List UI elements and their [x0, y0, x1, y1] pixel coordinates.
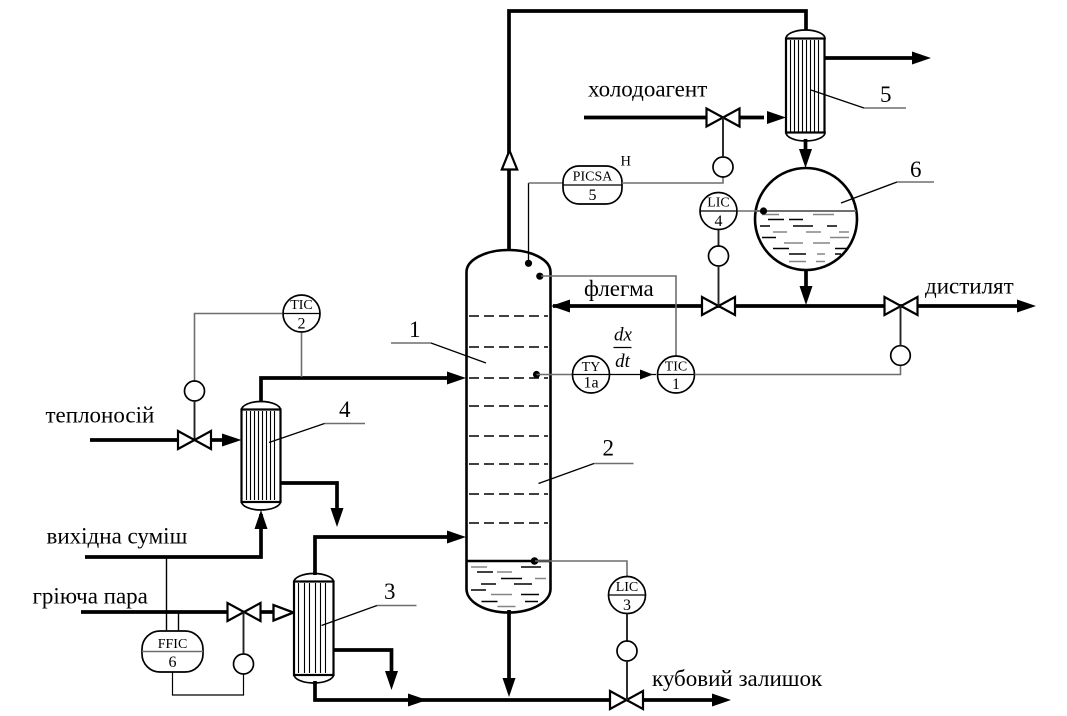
valve coolant control valve [707, 109, 724, 127]
svg-text:dx: dx [614, 325, 633, 346]
wire condenser vent outlet [825, 56, 913, 60]
wire PICSA output to coolant valve [622, 177, 723, 183]
svg-text:холодоагент: холодоагент [588, 77, 707, 102]
vapor flow hollow arrow [502, 151, 517, 170]
svg-text:TIC: TIC [665, 360, 688, 375]
wire TY-1a to TIC-1 with arrow [610, 374, 657, 376]
wire distillate / reflux line [553, 304, 1018, 308]
column sump liquid hatch [471, 567, 546, 607]
svg-text:TY: TY [582, 360, 601, 375]
instrument PICSA-5 [563, 166, 622, 204]
instrument TY-1a [573, 356, 610, 393]
svg-text:Н: Н [621, 154, 632, 170]
wire TIC-2 sensor stem [301, 333, 303, 377]
instrument TIC-1 [658, 356, 695, 393]
svg-text:флегма: флегма [584, 276, 654, 301]
svg-text:3: 3 [384, 579, 396, 604]
wire reboiler vapor return to column [315, 537, 450, 575]
instrument FFIC-6 [142, 631, 203, 672]
wire drum outlet to distillate line [804, 270, 808, 288]
actuator circle bottoms valve [617, 641, 637, 661]
wire FFIC steam impulse line [178, 612, 180, 631]
svg-text:4: 4 [715, 213, 723, 230]
svg-text:2: 2 [298, 316, 306, 333]
condenser E5 [786, 30, 825, 141]
wire bottoms line [315, 681, 611, 700]
svg-text:2: 2 [603, 436, 615, 461]
svg-text:4: 4 [339, 397, 351, 422]
node level tap dot column sump [531, 557, 539, 565]
wire tap to TY-1a [537, 374, 574, 376]
node feed tray tap dot [533, 371, 540, 378]
svg-text:PICSA: PICSA [573, 170, 614, 185]
wire feed line [85, 514, 261, 557]
svg-text:вихідна суміш: вихідна суміш [47, 524, 188, 549]
wire vapor overhead pipe column to condenser [509, 11, 806, 252]
svg-text:LIC: LIC [616, 580, 639, 595]
svg-text:FFIC: FFIC [158, 637, 188, 652]
valve heating medium valve [178, 431, 195, 449]
wire LIC-4 level tap [738, 210, 763, 212]
column shell (rectification column) [467, 250, 551, 613]
actuator circle distillate valve [891, 346, 911, 366]
drum liquid hatch [760, 215, 849, 262]
svg-text:TIC: TIC [290, 298, 313, 313]
instrument LIC-4 [700, 193, 738, 231]
drum liquid level line [756, 210, 856, 212]
wire FFIC feed impulse line [166, 557, 168, 631]
wire heated feed line HX4 to column [261, 378, 450, 403]
wire HX4 condensate outlet [281, 483, 338, 509]
label dx/dt [614, 325, 633, 373]
valve reflux control valve [702, 297, 719, 315]
node temperature tap dot (top product) [536, 273, 543, 280]
check arrow hollow into reboiler [274, 605, 294, 621]
wire LIC-4 output down to reflux valve [718, 230, 720, 246]
valve distillate control valve [885, 297, 902, 315]
wire TIC-2 output to heating valve [195, 314, 283, 382]
reflux arrow into column [551, 300, 570, 313]
svg-text:дистилят: дистилят [925, 274, 1014, 299]
wire coolant inlet line [584, 116, 706, 120]
column liquid level line [468, 560, 550, 563]
svg-text:теплоносій: теплоносій [46, 403, 155, 428]
wire signal to TIC-1 [541, 276, 676, 356]
instrument TIC-2 [283, 295, 320, 333]
actuator circle steam valve [234, 654, 254, 674]
reboiler E3 [294, 574, 334, 684]
svg-text:кубовий залишок: кубовий залишок [652, 666, 823, 691]
wire condensate pipe to drum [804, 139, 808, 151]
svg-text:5: 5 [589, 187, 597, 204]
wire reboiler side outlet [334, 650, 392, 672]
node level tap dot on drum [760, 207, 767, 214]
node pressure tap dot on column dome [525, 260, 532, 267]
svg-text:6: 6 [910, 157, 922, 182]
wire steam line [81, 610, 228, 614]
instrument LIC-3 [609, 577, 646, 615]
heat exchanger E4 (feed preheater) [242, 402, 281, 511]
svg-text:dt: dt [615, 351, 631, 372]
svg-text:гріюча пара: гріюча пара [33, 584, 148, 609]
actuator circle heating medium valve [185, 381, 205, 401]
tray dashed lines [469, 316, 548, 523]
actuator circle reflux valve [709, 246, 729, 266]
svg-text:1: 1 [672, 376, 680, 393]
distillate arrow [1017, 300, 1036, 313]
wire LIC-3 level impulse line [535, 561, 627, 577]
valve steam control valve [228, 603, 245, 621]
wire pressure impulse line to PICSA [528, 183, 530, 263]
actuator circle coolant valve [713, 157, 733, 177]
svg-text:3: 3 [623, 597, 631, 614]
wire heating medium line [90, 438, 179, 442]
svg-text:6: 6 [169, 654, 177, 671]
reflux drum B6 [755, 168, 857, 270]
wire TIC-1 output to distillate valve [695, 365, 901, 375]
svg-text:1: 1 [409, 317, 421, 342]
wire FFIC output to steam valve [173, 672, 244, 695]
svg-text:LIC: LIC [707, 196, 730, 211]
valve bottoms valve [610, 691, 627, 709]
svg-text:1а: 1а [583, 375, 598, 392]
svg-text:5: 5 [880, 82, 892, 107]
wire LIC-3 output to bottoms valve [626, 614, 628, 642]
wire column bottom outlet [507, 610, 511, 679]
